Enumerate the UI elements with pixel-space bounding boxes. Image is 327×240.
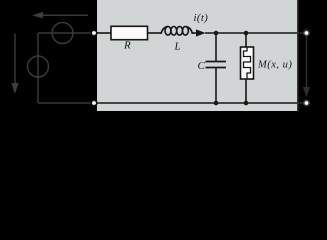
svg-text:C: C (198, 60, 206, 72)
svg-text:i(t): i(t) (194, 12, 209, 24)
svg-text:L: L (174, 41, 181, 53)
svg-text:R: R (123, 40, 131, 52)
svg-text:M(x, u): M(x, u) (257, 60, 292, 71)
